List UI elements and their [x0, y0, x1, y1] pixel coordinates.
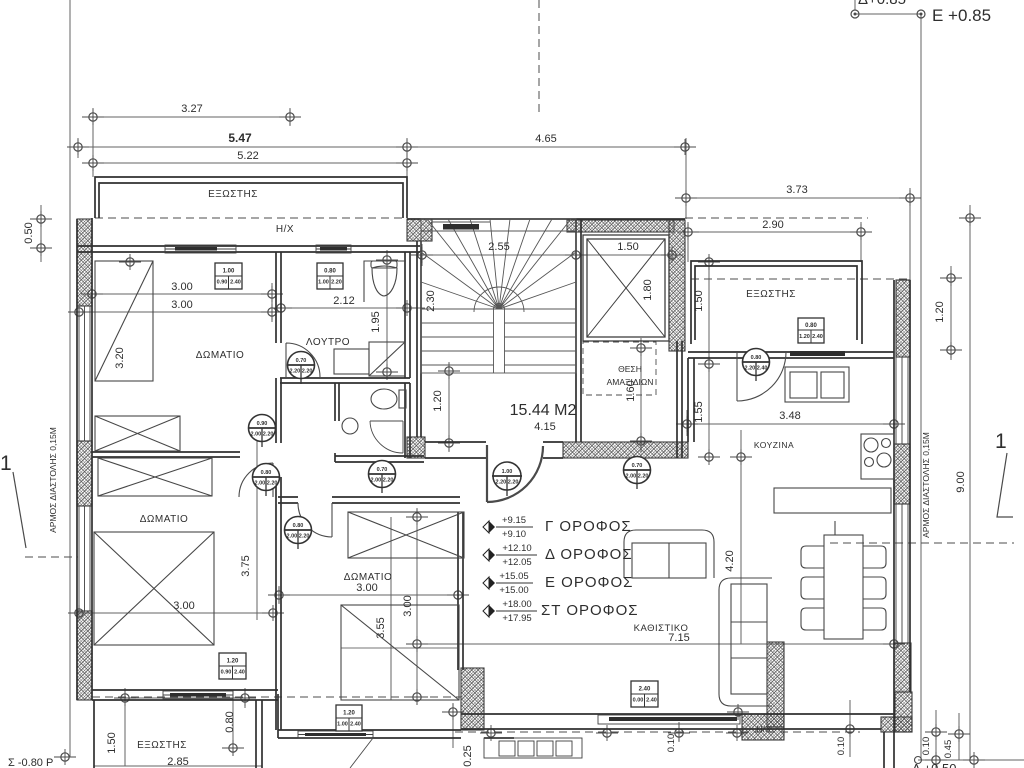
- svg-text:1.00: 1.00: [318, 280, 329, 286]
- svg-text:ΕΞΩΣΤΗΣ: ΕΞΩΣΤΗΣ: [137, 740, 187, 751]
- svg-text:2.20 2.20: 2.20 2.20: [496, 480, 519, 486]
- svg-text:4.15: 4.15: [534, 421, 555, 433]
- svg-text:0.80: 0.80: [324, 269, 336, 275]
- svg-text:0.10: 0.10: [921, 737, 932, 756]
- svg-text:Η/Χ: Η/Χ: [276, 224, 294, 235]
- svg-text:2.85: 2.85: [167, 756, 188, 768]
- svg-text:3.48: 3.48: [779, 410, 800, 422]
- svg-text:2.40: 2.40: [812, 334, 823, 340]
- svg-text:+12.05: +12.05: [502, 557, 531, 568]
- svg-text:3.00: 3.00: [173, 600, 194, 612]
- svg-text:ΚΑΘΙΣΤΙΚΟ: ΚΑΘΙΣΤΙΚΟ: [634, 623, 689, 634]
- svg-text:+9.10: +9.10: [502, 529, 526, 540]
- svg-text:1.95: 1.95: [370, 311, 382, 332]
- svg-text:0.10: 0.10: [836, 737, 847, 756]
- svg-text:+18.00: +18.00: [502, 599, 531, 610]
- svg-text:2.00 2.20: 2.00 2.20: [626, 474, 649, 480]
- svg-text:3.73: 3.73: [786, 184, 807, 196]
- svg-text:ΕΞΩΣΤΗΣ: ΕΞΩΣΤΗΣ: [208, 189, 258, 200]
- svg-text:0.70: 0.70: [296, 358, 307, 364]
- svg-text:0.80: 0.80: [293, 523, 304, 529]
- svg-text:2.55: 2.55: [488, 241, 509, 253]
- svg-text:ΔΩΜΑΤΙΟ: ΔΩΜΑΤΙΟ: [196, 350, 245, 361]
- svg-text:0.90: 0.90: [217, 280, 228, 286]
- svg-text:1.55: 1.55: [693, 401, 705, 422]
- svg-text:3.20: 3.20: [114, 347, 126, 368]
- svg-text:ΘΕΣΗ: ΘΕΣΗ: [618, 364, 642, 374]
- svg-text:1: 1: [0, 452, 12, 475]
- svg-text:Σ -0.80 Ρ: Σ -0.80 Ρ: [8, 757, 53, 768]
- svg-text:Δ +0.50: Δ +0.50: [912, 761, 956, 768]
- svg-text:5.22: 5.22: [237, 150, 258, 162]
- svg-text:0.50: 0.50: [23, 222, 35, 243]
- svg-text:1.20: 1.20: [432, 390, 444, 411]
- svg-text:2.20 2.20: 2.20 2.20: [290, 369, 313, 375]
- svg-text:1.20: 1.20: [934, 301, 946, 322]
- svg-text:Η/Χ: Η/Χ: [757, 725, 772, 734]
- svg-text:2.00 2.20: 2.00 2.20: [255, 481, 278, 487]
- svg-text:0.45: 0.45: [943, 740, 954, 759]
- svg-text:2.40: 2.40: [230, 280, 241, 286]
- svg-text:0.90: 0.90: [221, 670, 232, 676]
- svg-text:9.00: 9.00: [955, 471, 967, 492]
- svg-text:5.47: 5.47: [228, 131, 252, 145]
- svg-text:Δ ΟΡΟΦΟΣ: Δ ΟΡΟΦΟΣ: [545, 546, 633, 563]
- svg-text:Ε ΟΡΟΦΟΣ: Ε ΟΡΟΦΟΣ: [545, 574, 633, 591]
- svg-text:ΑΡΜΟΣ ΔΙΑΣΤΟΛΗΣ 0,15Μ: ΑΡΜΟΣ ΔΙΑΣΤΟΛΗΣ 0,15Μ: [921, 432, 931, 538]
- svg-text:0.70: 0.70: [377, 467, 388, 473]
- svg-text:1.20: 1.20: [343, 711, 355, 717]
- svg-text:2.00 2.20: 2.00 2.20: [371, 478, 394, 484]
- svg-text:Γ ΟΡΟΦΟΣ: Γ ΟΡΟΦΟΣ: [545, 518, 632, 535]
- svg-text:2.40: 2.40: [639, 687, 651, 693]
- svg-text:1.00: 1.00: [337, 722, 348, 728]
- svg-text:1.00: 1.00: [502, 469, 513, 475]
- svg-text:1.50: 1.50: [693, 290, 705, 311]
- svg-text:Δ+0.85: Δ+0.85: [858, 0, 906, 8]
- svg-text:0.10: 0.10: [666, 734, 677, 753]
- svg-text:0.90: 0.90: [257, 421, 268, 427]
- svg-text:3.27: 3.27: [181, 103, 202, 115]
- svg-text:3.00: 3.00: [171, 299, 192, 311]
- svg-text:0.25: 0.25: [462, 745, 474, 766]
- svg-text:2.00 2.20: 2.00 2.20: [251, 432, 274, 438]
- svg-text:2.40: 2.40: [350, 722, 361, 728]
- svg-text:+15.00: +15.00: [499, 585, 528, 596]
- svg-text:2.30: 2.30: [425, 290, 437, 311]
- svg-text:4.65: 4.65: [535, 133, 556, 145]
- svg-text:ΣΤ ΟΡΟΦΟΣ: ΣΤ ΟΡΟΦΟΣ: [541, 602, 639, 619]
- svg-text:2.12: 2.12: [333, 295, 354, 307]
- svg-text:4.20: 4.20: [724, 550, 736, 571]
- svg-text:ΕΞΩΣΤΗΣ: ΕΞΩΣΤΗΣ: [746, 289, 796, 300]
- svg-text:ΔΩΜΑΤΙΟ: ΔΩΜΑΤΙΟ: [140, 514, 189, 525]
- svg-text:+12.10: +12.10: [502, 543, 531, 554]
- svg-text:3.55: 3.55: [375, 617, 387, 638]
- svg-text:ΔΩΜΑΤΙΟ: ΔΩΜΑΤΙΟ: [344, 572, 393, 583]
- svg-text:2.40: 2.40: [234, 670, 245, 676]
- svg-text:15.44 Μ2: 15.44 Μ2: [510, 402, 577, 419]
- svg-text:+9.15: +9.15: [502, 515, 526, 526]
- svg-text:1.50: 1.50: [617, 241, 638, 253]
- svg-text:1.20: 1.20: [227, 659, 239, 665]
- svg-text:0.80: 0.80: [805, 323, 817, 329]
- svg-text:2.90: 2.90: [762, 219, 783, 231]
- svg-text:1.50: 1.50: [106, 732, 118, 753]
- svg-text:3.00: 3.00: [356, 582, 377, 594]
- svg-text:ΑΡΜΟΣ ΔΙΑΣΤΟΛΗΣ 0,15Μ: ΑΡΜΟΣ ΔΙΑΣΤΟΛΗΣ 0,15Μ: [48, 427, 58, 533]
- svg-text:1.00: 1.00: [223, 269, 235, 275]
- svg-text:0.70: 0.70: [632, 463, 643, 469]
- svg-text:ΚΟΥΖΙΝΑ: ΚΟΥΖΙΝΑ: [754, 440, 794, 450]
- svg-text:+17.95: +17.95: [502, 613, 531, 624]
- svg-text:Ε +0.85: Ε +0.85: [932, 6, 991, 25]
- svg-text:0.80: 0.80: [261, 470, 272, 476]
- svg-text:3.00: 3.00: [402, 595, 414, 616]
- svg-text:0.00: 0.00: [633, 698, 644, 704]
- svg-text:ΑΜΑΞΙΔΙΩΝ: ΑΜΑΞΙΔΙΩΝ: [607, 377, 654, 387]
- svg-text:1.80: 1.80: [642, 279, 654, 300]
- svg-text:2.20: 2.20: [331, 280, 342, 286]
- svg-text:3.00: 3.00: [171, 281, 192, 293]
- svg-text:0.80: 0.80: [224, 711, 236, 732]
- svg-text:ΛΟΥΤΡΟ: ΛΟΥΤΡΟ: [306, 337, 350, 348]
- svg-text:1: 1: [995, 430, 1007, 453]
- svg-text:2.40: 2.40: [646, 698, 657, 704]
- svg-text:+15.05: +15.05: [499, 571, 528, 582]
- svg-text:1.20: 1.20: [799, 334, 810, 340]
- svg-text:3.75: 3.75: [240, 555, 252, 576]
- svg-text:0.80: 0.80: [751, 355, 762, 361]
- svg-text:2.20 2.40: 2.20 2.40: [745, 366, 768, 372]
- svg-text:2.00 2.20: 2.00 2.20: [287, 534, 310, 540]
